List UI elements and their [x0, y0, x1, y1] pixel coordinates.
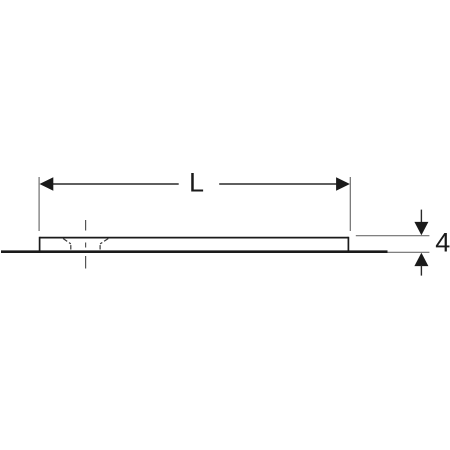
arrowhead right of dimension L: [336, 177, 350, 191]
arrowhead pointing down (dimension 4): [414, 222, 428, 235]
dimension line L right segment: [219, 183, 337, 185]
hidden drain recess right slope (dashed): [100, 239, 108, 244]
label 4: [435, 228, 450, 258]
drain centerline lower dash: [85, 256, 87, 269]
floor / bottom line: [1, 250, 388, 253]
extension line right (for L): [349, 177, 351, 231]
extension line left (for L): [38, 177, 40, 231]
upper arrow leader of dimension 4: [420, 210, 422, 223]
extension line bottom (for 4): [388, 251, 430, 253]
shower surface top line: [40, 237, 349, 239]
dimension line L left segment: [53, 183, 179, 185]
drain centerline upper dash: [85, 220, 87, 231]
drain centerline middle dash: [85, 243, 87, 248]
lower arrow leader of dimension 4: [420, 265, 422, 276]
shower surface right edge: [347, 237, 349, 252]
arrowhead left of dimension L: [40, 177, 54, 191]
hidden drain recess left slope (dashed): [63, 239, 71, 244]
svg-text:L: L: [189, 168, 204, 198]
svg-text:4: 4: [435, 228, 450, 258]
arrowhead pointing up (dimension 4): [414, 253, 428, 266]
label L: [189, 168, 204, 198]
shower surface left edge: [39, 237, 41, 252]
extension line top (for 4): [356, 235, 430, 237]
hidden drain recess left wall (dashed): [70, 244, 72, 251]
hidden drain recess right wall (dashed): [99, 244, 101, 251]
